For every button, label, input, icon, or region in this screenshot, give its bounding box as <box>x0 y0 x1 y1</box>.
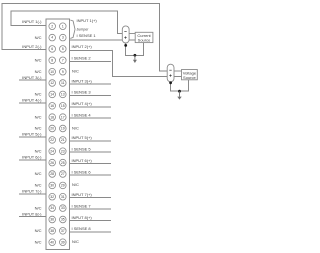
pin 35 <box>60 216 67 223</box>
pin 13 <box>60 91 67 98</box>
svg-text:INPUT 3(-): INPUT 3(-) <box>22 75 42 80</box>
label I SENSE 6 (pin 27) <box>70 169 112 175</box>
label N/C (pin 24) <box>35 148 42 153</box>
svg-text:I SENSE 1: I SENSE 1 <box>77 33 97 38</box>
svg-text:6: 6 <box>51 47 53 51</box>
pin 2 <box>49 23 56 30</box>
pin 25 <box>60 159 67 166</box>
label N/C (pin 30) <box>35 183 42 188</box>
pin 7 <box>60 57 67 64</box>
label INPUT 1(-) (pin 2) <box>22 19 42 24</box>
svg-text:N/C: N/C <box>35 114 42 119</box>
svg-text:22: 22 <box>50 138 54 142</box>
label I SENSE 3 (pin 13) <box>70 90 112 96</box>
svg-text:21: 21 <box>61 138 65 142</box>
label I SENSE 7 (pin 33) <box>70 203 112 209</box>
current source symbol (oval) <box>122 26 129 43</box>
svg-text:N/C: N/C <box>35 92 42 97</box>
pin 19 <box>60 125 67 132</box>
current source label box <box>135 32 153 42</box>
svg-text:INPUT 5(-): INPUT 5(-) <box>22 132 42 137</box>
pin 11 <box>60 80 67 87</box>
svg-text:7: 7 <box>62 58 64 62</box>
svg-text:Source: Source <box>183 75 196 80</box>
svg-text:I SENSE 7: I SENSE 7 <box>72 203 92 208</box>
svg-text:INPUT 2(+): INPUT 2(+) <box>72 44 93 49</box>
svg-text:14: 14 <box>50 93 54 97</box>
junction dot at voltage source ground tap <box>178 90 181 93</box>
label N/C (pin 9) <box>72 69 79 74</box>
svg-text:40: 40 <box>50 240 54 244</box>
pin 12 <box>49 80 56 87</box>
wire: INPUT 2(+) pin 5 to voltage source positive terminal <box>70 51 182 77</box>
svg-text:12: 12 <box>50 81 54 85</box>
label INPUT 4(-) (pin 16) <box>19 98 46 103</box>
svg-text:INPUT 3(+): INPUT 3(+) <box>72 78 93 83</box>
pin 1 <box>60 23 67 30</box>
label INPUT 5(-) (pin 22) <box>19 132 46 137</box>
label INPUT 6(-) (pin 26) <box>19 154 46 159</box>
svg-text:38: 38 <box>50 229 54 233</box>
label INPUT 6(+) (pin 25) <box>70 158 112 164</box>
label N/C (pin 20) <box>35 126 42 131</box>
label I SENSE 1 (pin 3) <box>77 33 97 38</box>
pin 34 <box>49 205 56 212</box>
label N/C (pin 18) <box>35 114 42 119</box>
svg-text:N/C: N/C <box>35 239 42 244</box>
svg-text:3: 3 <box>62 36 64 40</box>
label INPUT 3(-) (pin 12) <box>19 75 46 80</box>
label N/C (pin 4) <box>35 35 42 40</box>
pin 15 <box>60 103 67 110</box>
svg-text:INPUT 8(-): INPUT 8(-) <box>22 211 42 216</box>
pin 31 <box>60 193 67 200</box>
svg-text:15: 15 <box>61 104 65 108</box>
label INPUT 8(-) (pin 36) <box>19 211 46 216</box>
svg-text:37: 37 <box>61 229 65 233</box>
pin 29 <box>60 182 67 189</box>
svg-text:N/C: N/C <box>72 125 79 130</box>
svg-text:28: 28 <box>50 172 54 176</box>
label INPUT 7(+) (pin 31) <box>70 192 112 198</box>
svg-text:39: 39 <box>61 240 65 244</box>
ground (voltage source) <box>177 91 181 99</box>
pin 18 <box>49 114 56 121</box>
svg-text:N/C: N/C <box>35 171 42 176</box>
svg-text:N/C: N/C <box>35 69 42 74</box>
svg-text:Jumper: Jumper <box>77 28 90 32</box>
label N/C (pin 8) <box>35 58 42 63</box>
svg-text:N/C: N/C <box>35 126 42 131</box>
svg-text:16: 16 <box>50 104 54 108</box>
svg-text:23: 23 <box>61 149 65 153</box>
svg-text:INPUT 8(+): INPUT 8(+) <box>72 215 93 220</box>
svg-text:19: 19 <box>61 127 65 131</box>
svg-text:I SENSE 5: I SENSE 5 <box>72 147 92 152</box>
svg-text:30: 30 <box>50 184 54 188</box>
label INPUT 8(+) (pin 35) <box>70 215 112 221</box>
ground (current source) <box>133 55 137 63</box>
wire: INPUT 1(-) pin 2 to current source negative terminal <box>11 11 122 34</box>
svg-text:32: 32 <box>50 195 54 199</box>
svg-text:I SENSE 3: I SENSE 3 <box>72 90 92 95</box>
label N/C (pin 34) <box>35 205 42 210</box>
pin 40 <box>49 239 56 246</box>
svg-text:5: 5 <box>62 47 64 51</box>
svg-text:N/C: N/C <box>35 58 42 63</box>
wire: current source bottom return <box>126 43 144 56</box>
junction dot below current source <box>124 44 127 47</box>
svg-text:27: 27 <box>61 172 65 176</box>
label I SENSE 4 (pin 17) <box>70 112 112 118</box>
label INPUT 7(-) (pin 32) <box>19 189 46 194</box>
svg-text:N/C: N/C <box>35 183 42 188</box>
svg-text:INPUT 6(+): INPUT 6(+) <box>72 158 93 163</box>
svg-text:N/C: N/C <box>35 228 42 233</box>
svg-text:33: 33 <box>61 206 65 210</box>
label N/C (pin 14) <box>35 92 42 97</box>
svg-text:N/C: N/C <box>72 182 79 187</box>
svg-text:1: 1 <box>62 24 64 28</box>
svg-text:17: 17 <box>61 115 65 119</box>
label N/C (pin 39) <box>72 239 79 244</box>
svg-text:INPUT 1(-): INPUT 1(-) <box>22 19 42 24</box>
svg-text:INPUT 4(-): INPUT 4(-) <box>22 98 42 103</box>
svg-text:34: 34 <box>50 206 54 210</box>
label N/C (pin 40) <box>35 239 42 244</box>
pin 9 <box>60 68 67 75</box>
svg-text:N/C: N/C <box>72 239 79 244</box>
label N/C (pin 10) <box>35 69 42 74</box>
svg-text:10: 10 <box>50 70 54 74</box>
label N/C (pin 29) <box>72 182 79 187</box>
svg-text:INPUT 7(+): INPUT 7(+) <box>72 192 93 197</box>
svg-text:31: 31 <box>61 195 65 199</box>
pin 27 <box>60 171 67 178</box>
label INPUT 3(+) (pin 11) <box>70 78 112 84</box>
pin 21 <box>60 137 67 144</box>
pin 23 <box>60 148 67 155</box>
svg-text:N/C: N/C <box>35 35 42 40</box>
voltage source symbol (oval) <box>167 64 174 82</box>
svg-text:I SENSE 6: I SENSE 6 <box>72 169 92 174</box>
svg-text:Source: Source <box>138 38 151 43</box>
svg-text:I SENSE 8: I SENSE 8 <box>72 226 92 231</box>
wire: I SENSE 1 pin 3 to current source positive terminal <box>70 39 136 41</box>
wire: INPUT 2(-) pin 6 to voltage source negative terminal <box>2 4 167 72</box>
label INPUT 2(-) (pin 6) <box>22 44 42 49</box>
pin 32 <box>49 193 56 200</box>
pin 30 <box>49 182 56 189</box>
pin 20 <box>49 125 56 132</box>
pin 24 <box>49 148 56 155</box>
svg-text:INPUT 1(+): INPUT 1(+) <box>77 18 98 23</box>
label Jumper <box>77 28 90 32</box>
svg-text:9: 9 <box>62 70 64 74</box>
pin 16 <box>49 103 56 110</box>
pin 37 <box>60 228 67 235</box>
svg-text:N/C: N/C <box>35 148 42 153</box>
svg-text:INPUT 7(-): INPUT 7(-) <box>22 189 42 194</box>
label INPUT 2(+) (pin 5) <box>72 44 93 49</box>
svg-text:N/C: N/C <box>35 205 42 210</box>
svg-text:2: 2 <box>51 24 53 28</box>
pin 17 <box>60 114 67 121</box>
svg-text:18: 18 <box>50 115 54 119</box>
label I SENSE 5 (pin 23) <box>70 147 112 153</box>
pin 28 <box>49 171 56 178</box>
svg-text:13: 13 <box>61 93 65 97</box>
pin 39 <box>60 239 67 246</box>
svg-text:20: 20 <box>50 127 54 131</box>
label INPUT 5(+) (pin 21) <box>70 135 112 141</box>
svg-text:26: 26 <box>50 161 54 165</box>
pin 8 <box>49 57 56 64</box>
pin 6 <box>49 46 56 53</box>
svg-text:4: 4 <box>51 36 53 40</box>
label N/C (pin 28) <box>35 171 42 176</box>
jumper bracket between pin 1 and pin 3 <box>70 20 75 38</box>
junction dot at current source ground tap <box>134 54 137 57</box>
svg-text:INPUT 5(+): INPUT 5(+) <box>72 135 93 140</box>
current source upper lead to label box <box>129 33 135 35</box>
svg-text:INPUT 6(-): INPUT 6(-) <box>22 154 42 159</box>
pin 38 <box>49 228 56 235</box>
connector body (40-pin terminal block) <box>46 19 70 250</box>
svg-text:I SENSE 4: I SENSE 4 <box>72 112 92 117</box>
label I SENSE 2 (pin 7) <box>70 56 112 62</box>
label INPUT 4(+) (pin 15) <box>70 101 112 107</box>
svg-text:36: 36 <box>50 218 54 222</box>
label N/C (pin 19) <box>72 125 79 130</box>
pin 36 <box>49 216 56 223</box>
svg-text:N/C: N/C <box>72 69 79 74</box>
wire: voltage source bottom return <box>171 80 189 91</box>
pin 3 <box>60 34 67 41</box>
svg-text:35: 35 <box>61 218 65 222</box>
svg-text:INPUT 4(+): INPUT 4(+) <box>72 101 93 106</box>
label I SENSE 8 (pin 37) <box>70 226 112 232</box>
pin 5 <box>60 46 67 53</box>
svg-text:11: 11 <box>61 81 65 85</box>
pin 22 <box>49 137 56 144</box>
label N/C (pin 38) <box>35 228 42 233</box>
label INPUT 1(+) (pin 1) <box>77 18 98 23</box>
pin 33 <box>60 205 67 212</box>
voltage source label box <box>182 70 198 80</box>
voltage source upper lead to label box <box>174 70 182 72</box>
pin 14 <box>49 91 56 98</box>
svg-text:8: 8 <box>51 58 53 62</box>
svg-text:INPUT 2(-): INPUT 2(-) <box>22 44 42 49</box>
svg-text:25: 25 <box>61 161 65 165</box>
junction dot below voltage source <box>169 81 172 84</box>
pin 4 <box>49 34 56 41</box>
svg-text:24: 24 <box>50 149 54 153</box>
svg-text:I SENSE 2: I SENSE 2 <box>72 56 92 61</box>
svg-text:29: 29 <box>61 184 65 188</box>
pin 26 <box>49 159 56 166</box>
pin 10 <box>49 68 56 75</box>
